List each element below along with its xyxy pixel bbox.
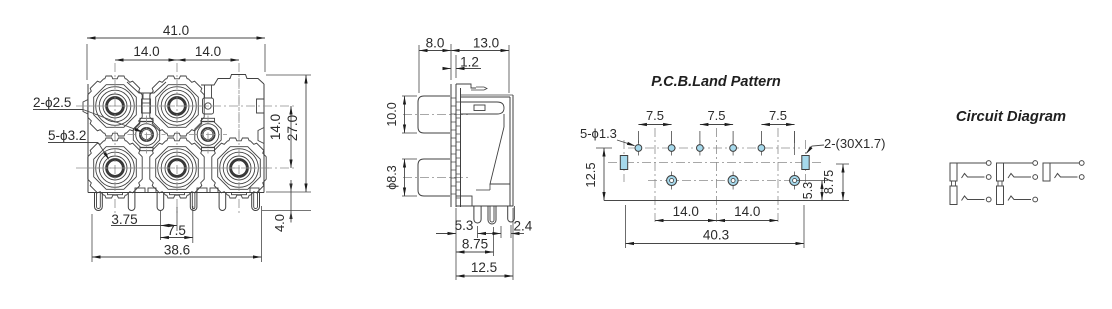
svg-text:8.75: 8.75 [462,237,488,252]
svg-text:5.3: 5.3 [455,218,474,233]
svg-text:1.2: 1.2 [460,55,479,70]
svg-text:40.3: 40.3 [703,228,729,243]
svg-text:2-ϕ2.5: 2-ϕ2.5 [33,95,71,110]
svg-text:5-ϕ1.3: 5-ϕ1.3 [580,126,617,141]
svg-text:7.5: 7.5 [769,108,787,123]
svg-text:Circuit Diagram: Circuit Diagram [956,109,1066,125]
svg-text:7.5: 7.5 [646,108,664,123]
svg-text:14.0: 14.0 [734,204,760,219]
svg-text:5.3: 5.3 [801,182,815,199]
svg-text:5-ϕ3.2: 5-ϕ3.2 [48,128,86,143]
svg-text:2-(30X1.7): 2-(30X1.7) [824,136,885,151]
svg-text:ϕ8.3: ϕ8.3 [385,165,399,189]
svg-text:14.0: 14.0 [268,114,283,140]
svg-text:4.0: 4.0 [272,214,287,232]
svg-text:12.5: 12.5 [471,260,497,275]
svg-text:27.0: 27.0 [285,115,300,141]
svg-text:7.5: 7.5 [167,223,186,238]
svg-text:10.0: 10.0 [385,102,399,126]
svg-text:14.0: 14.0 [133,44,159,59]
svg-text:41.0: 41.0 [163,23,189,38]
svg-text:7.5: 7.5 [707,108,725,123]
svg-text:14.0: 14.0 [673,204,699,219]
svg-text:3.75: 3.75 [111,212,137,227]
svg-text:12.5: 12.5 [583,162,598,187]
svg-text:38.6: 38.6 [164,243,190,258]
svg-text:8.75: 8.75 [822,170,836,194]
svg-text:8.0: 8.0 [426,36,445,51]
svg-text:14.0: 14.0 [195,44,221,59]
svg-text:13.0: 13.0 [473,36,499,51]
svg-text:2.4: 2.4 [514,219,533,234]
svg-text:P.C.B.Land Pattern: P.C.B.Land Pattern [651,74,781,90]
